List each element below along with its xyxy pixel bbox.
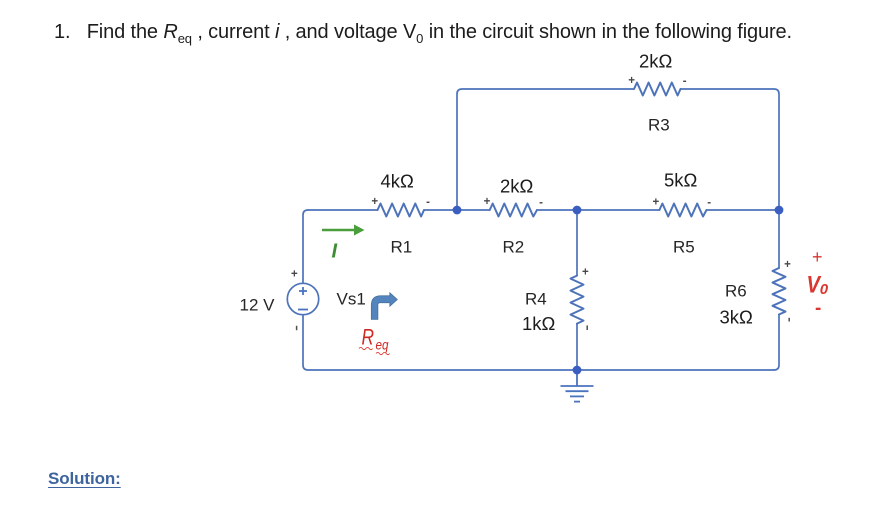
svg-text:Vs1: Vs1 [337,290,366,309]
wire left vertical top (source to middle row) [303,210,308,283]
svg-text:eq: eq [376,337,389,353]
node C (R5/top branch/R6) [775,206,784,215]
resistor R5 [659,204,706,217]
svg-text:+: + [628,75,635,87]
svg-text:2kΩ: 2kΩ [639,51,673,72]
wire R6 bottom to bottom rail [774,315,779,371]
wire bottom rail [303,315,774,370]
Req curved block arrow (steel blue) [371,293,397,320]
wire top branch right [681,89,780,210]
wire middle row left segment [308,209,378,211]
resistor R6 vertical [773,268,786,315]
Solution heading [48,469,121,489]
svg-text:+: + [652,196,659,208]
svg-text:5kΩ: 5kΩ [664,169,698,190]
svg-text:+: + [291,268,298,280]
wire top branch left vertical [457,89,634,210]
resistor R1 [378,204,425,217]
svg-text:+: + [484,196,491,208]
plus inside source [298,287,308,310]
svg-text:-: - [426,197,430,209]
resistor R4 vertical [571,276,584,324]
svg-text:0: 0 [820,281,829,298]
svg-text:-: - [707,197,711,209]
svg-text:R: R [362,325,375,350]
svg-text:1kΩ: 1kΩ [522,313,556,334]
wire R4 bottom to ground node [576,324,578,370]
svg-text:12 V: 12 V [240,296,276,315]
resistor R2 [490,204,537,217]
minus inside source [298,309,308,311]
svg-text:R1: R1 [391,237,413,256]
Req label (red, italic serif) [359,325,390,355]
title text [54,21,792,46]
wire R5 to node C [707,209,780,211]
svg-text:I: I [332,241,338,263]
svg-text:R3: R3 [648,116,670,135]
svg-text:-: - [539,197,543,209]
svg-text:+: + [371,196,378,208]
svg-text:+: + [582,266,589,278]
node B (R2/R5/R4) [573,206,582,215]
svg-text:2kΩ: 2kΩ [500,176,534,197]
svg-text:4kΩ: 4kΩ [381,171,415,192]
svg-text:+: + [812,247,823,267]
svg-text:3kΩ: 3kΩ [720,307,754,328]
svg-text:R6: R6 [725,282,747,301]
wire R6 branch upper [778,210,780,268]
svg-text:R2: R2 [503,237,525,256]
svg-text:R5: R5 [673,237,695,256]
wire R4 branch upper [576,210,578,276]
voltage source V s1 circle [287,283,318,314]
node D (ground node) [573,366,582,375]
svg-text:-: - [815,298,821,319]
wire R2 to node B [537,209,659,211]
ground [561,370,594,402]
node A (R1/R2/top branch) [453,206,462,215]
svg-text:+: + [784,259,791,271]
current arrow I (green) [322,225,365,263]
svg-text:-: - [683,76,687,88]
resistor R3 [634,83,681,96]
wire R1 to node A [424,209,490,211]
svg-text:R4: R4 [525,289,547,308]
